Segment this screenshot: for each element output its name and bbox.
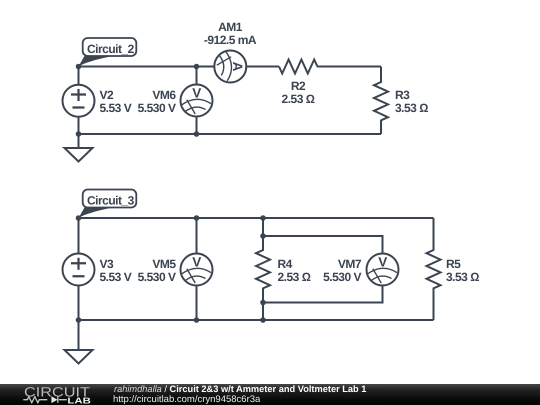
- voltmeter VM7: [367, 254, 399, 286]
- ground (Circuit_3): [65, 320, 93, 364]
- svg-text:VM5: VM5: [152, 257, 176, 271]
- wire bottom rail Circuit_2: [79, 133, 382, 135]
- wire bottom rail Circuit_3: [79, 319, 434, 321]
- ammeter AM1: [214, 51, 246, 83]
- svg-text:5.530 V: 5.530 V: [138, 270, 176, 284]
- wire R2 to R3 corner: [317, 66, 381, 68]
- voltmeter VM5: [181, 218, 213, 320]
- svg-text:VM6: VM6: [152, 88, 176, 102]
- svg-text:Circuit_3: Circuit_3: [87, 193, 135, 207]
- svg-text:rahimdhalla / Circuit 2&3 w/t: rahimdhalla / Circuit 2&3 w/t Ammeter an…: [114, 384, 366, 394]
- junction V2 bottom: [76, 131, 82, 137]
- wire VM7 branch bottom: [263, 286, 383, 303]
- svg-text:Circuit_2: Circuit_2: [87, 42, 135, 56]
- node Circuit_3: [76, 215, 82, 221]
- svg-text:R2: R2: [291, 79, 306, 93]
- junction R4 top: [260, 215, 266, 221]
- svg-text:5.53 V: 5.53 V: [100, 270, 132, 284]
- node dot junctions: [76, 64, 266, 323]
- flag label Circuit_2: [79, 38, 137, 67]
- svg-text:5.530 V: 5.530 V: [323, 270, 361, 284]
- svg-text:3.53 Ω: 3.53 Ω: [446, 270, 479, 284]
- voltage source V3: [63, 218, 95, 320]
- svg-text:http://circuitlab.com/cryn9458: http://circuitlab.com/cryn9458c6r3a: [113, 394, 261, 405]
- wire top rail Circuit_3: [79, 217, 434, 219]
- junction VM5 bottom: [194, 317, 200, 323]
- svg-text:5.530 V: 5.530 V: [138, 101, 176, 115]
- junction VM6 top: [194, 64, 200, 70]
- resistor R5: [427, 218, 441, 320]
- node Circuit_2: [76, 64, 82, 70]
- svg-text:V3: V3: [100, 257, 115, 271]
- flag label Circuit_3: [79, 190, 137, 219]
- svg-text:A: A: [230, 62, 245, 72]
- voltage source V2: [63, 67, 95, 135]
- junction VM6 bottom: [194, 131, 200, 137]
- svg-text:R3: R3: [395, 88, 410, 102]
- logo waveform resistor zigzag and diode: [23, 397, 67, 403]
- svg-text:V: V: [192, 255, 201, 270]
- svg-text:5.53 V: 5.53 V: [100, 101, 132, 115]
- svg-text:2.53 Ω: 2.53 Ω: [282, 92, 315, 106]
- junction VM7 branch top: [260, 233, 266, 239]
- voltmeter VM6: [181, 67, 213, 135]
- svg-text:V: V: [192, 86, 201, 101]
- svg-text:LAB: LAB: [67, 396, 91, 405]
- svg-text:VM7: VM7: [338, 257, 362, 271]
- svg-text:2.53 Ω: 2.53 Ω: [278, 270, 311, 284]
- svg-text:AM1: AM1: [218, 20, 243, 34]
- svg-text:R5: R5: [446, 257, 461, 271]
- resistor R3: [374, 67, 388, 135]
- ground (Circuit_2): [65, 134, 93, 162]
- wire top-left Circuit_2 node to ammeter: [79, 66, 214, 68]
- junction V3 bottom: [76, 317, 82, 323]
- svg-text:R4: R4: [278, 257, 293, 271]
- svg-text:-912.5 mA: -912.5 mA: [204, 33, 257, 47]
- svg-text:V2: V2: [100, 88, 115, 102]
- junction R4 bottom: [260, 317, 266, 323]
- wire VM7 branch top: [263, 236, 383, 254]
- resistor R2: [279, 60, 317, 74]
- junction VM7 branch bottom: [260, 300, 266, 306]
- junction VM5 top: [194, 215, 200, 221]
- svg-text:3.53 Ω: 3.53 Ω: [395, 101, 428, 115]
- svg-text:V: V: [378, 255, 387, 270]
- resistor R4: [256, 218, 270, 320]
- wire ammeter to R2: [247, 66, 279, 68]
